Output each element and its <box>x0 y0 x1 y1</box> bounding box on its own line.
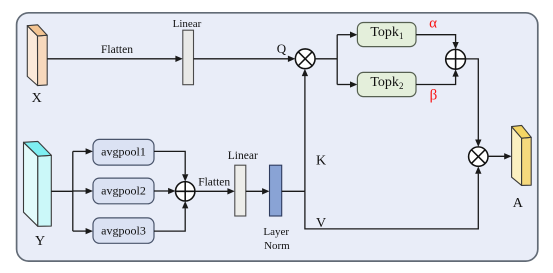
box Topk1 <box>357 23 416 47</box>
wire add1 to mul2 with arrowhead <box>466 59 479 140</box>
box avgpool2 <box>93 178 154 204</box>
wire mul2 to A with arrowhead <box>488 155 505 157</box>
wire Topk2 to add1 with arrowhead <box>416 76 456 84</box>
wire K up to mul1 with arrowhead <box>304 76 306 192</box>
wire avgpool1 to add2 with arrowhead <box>154 151 185 174</box>
wire branch to Topk2 with arrowhead <box>337 84 351 86</box>
box Y (3D slab) <box>24 141 52 226</box>
svg-text:α: α <box>429 16 437 32</box>
svg-text:avgpool3: avgpool3 <box>101 223 146 237</box>
box A (3D slab) <box>512 125 532 185</box>
LayerNorm block <box>270 165 282 216</box>
multiply node 1 (Q x K) <box>295 49 315 69</box>
branch wire vertical (avgpools) <box>72 151 74 231</box>
wire mul1 to branch <box>315 58 337 60</box>
svg-text:β: β <box>430 88 438 104</box>
svg-text:Q: Q <box>277 41 287 56</box>
svg-text:Topk1: Topk1 <box>370 25 403 41</box>
svg-text:Flatten: Flatten <box>198 177 230 189</box>
box avgpool1 <box>93 139 154 165</box>
wire add2 to Linear2 with arrowhead <box>195 190 228 192</box>
wire LayerNorm to KV junction <box>282 190 305 192</box>
wire Topk1 to add1 with arrowhead <box>416 35 456 44</box>
svg-text:A: A <box>513 196 524 211</box>
svg-text:Linear: Linear <box>228 150 258 162</box>
svg-text:Norm: Norm <box>264 240 290 252</box>
Linear block (bottom) <box>235 165 246 216</box>
wire avgpool2 to add2 with arrowhead <box>154 190 168 192</box>
Linear block (top) <box>183 30 194 84</box>
wire avgpool3 to add2 with arrowhead <box>154 208 185 231</box>
svg-text:avgpool1: avgpool1 <box>101 145 146 159</box>
box Topk2 <box>357 72 416 96</box>
branch wire vertical <box>336 35 338 85</box>
wire Linear2 to LayerNorm with arrowhead <box>246 190 262 192</box>
wire Linear1 to mul1 with arrowhead <box>194 58 290 60</box>
add node 1 <box>446 49 466 69</box>
svg-text:Layer: Layer <box>263 226 289 238</box>
wire V to mul2 with arrowhead <box>305 174 478 229</box>
svg-text:Topk2: Topk2 <box>370 75 403 91</box>
svg-text:X: X <box>32 91 42 106</box>
wire X to Linear1 with arrowhead <box>47 58 176 60</box>
svg-text:avgpool2: avgpool2 <box>101 184 146 198</box>
add node 2 <box>176 182 195 201</box>
wire Y to branch <box>51 190 73 192</box>
box avgpool3 <box>93 218 154 243</box>
svg-text:Y: Y <box>35 234 45 249</box>
svg-text:Flatten: Flatten <box>101 44 133 56</box>
multiply node 2 <box>469 147 488 166</box>
svg-text:Linear: Linear <box>173 18 202 30</box>
svg-text:K: K <box>316 153 326 168</box>
wire branch to Topk1 with arrowhead <box>337 34 351 36</box>
box X (3D slab) <box>27 25 47 86</box>
wire branch to avgpool3 with arrowhead <box>73 230 87 232</box>
svg-text:V: V <box>316 216 326 231</box>
wire branch to avgpool2 with arrowhead <box>73 190 87 192</box>
wire branch to avgpool1 with arrowhead <box>73 150 87 152</box>
